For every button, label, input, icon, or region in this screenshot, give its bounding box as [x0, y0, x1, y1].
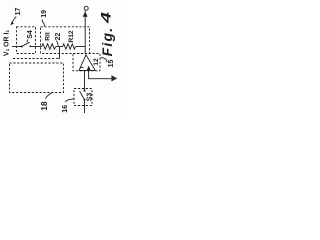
leader for label S4 [27, 40, 28, 43]
leader for label 15 [100, 58, 107, 63]
switch S3 bottom contact dot [84, 99, 86, 101]
supply vertical wire [84, 10, 86, 53]
leader for label 19 [42, 20, 44, 27]
wire R12 to supply node [76, 46, 85, 48]
leader for label 17 [12, 17, 16, 24]
svg-text:R12: R12 [68, 30, 75, 42]
svg-text:15: 15 [108, 60, 115, 68]
leader for label 22 [57, 41, 59, 46]
wire R11 to junction to R12 [56, 46, 63, 48]
box 19 (dashed enclosure around R11/R12) [41, 27, 90, 54]
svg-text:RII: RII [45, 32, 52, 41]
svg-text:S3: S3 [87, 93, 94, 102]
switch S4 contact dot left [21, 46, 23, 48]
wire S4 to R11 [30, 46, 42, 48]
svg-text:Fig.: Fig. [99, 27, 115, 57]
output arrowhead [111, 75, 117, 81]
arrowhead for label 17 [10, 21, 14, 25]
svg-text:12: 12 [93, 58, 100, 66]
svg-text:4: 4 [98, 12, 114, 25]
switch S3 arm [80, 91, 85, 99]
box 17 (dashed enclosure around switch S4) [17, 27, 36, 54]
box 16 (dashed enclosure around switch S3) [74, 89, 92, 106]
wire amp base down to S3 [84, 71, 86, 91]
svg-text:16: 16 [62, 105, 69, 113]
resistor R11 zigzag [42, 44, 56, 49]
dashed tap line to box 18 [13, 58, 56, 60]
svg-text:17: 17 [15, 8, 22, 16]
svg-text:S4: S4 [27, 30, 34, 39]
resistor R12 zigzag [63, 44, 76, 49]
arrowhead inside amplifier [87, 66, 91, 71]
svg-text:22: 22 [55, 33, 62, 41]
wire S3 to bottom [84, 101, 86, 113]
op-amp / amplifier 12 triangle [79, 55, 95, 71]
switch S4 contact dot right [29, 45, 31, 47]
supply arrowhead up [83, 12, 88, 17]
switch S3 top contact dot [84, 90, 86, 92]
leader for label 16 [66, 99, 74, 103]
wire from R11/R12 junction down to tap line [56, 47, 60, 59]
leader for label 18 [46, 93, 52, 99]
switch S4 arm [22, 42, 30, 46]
output wire from amp [89, 71, 112, 79]
svg-text:V1 OR I1: V1 OR I1 [3, 29, 10, 56]
svg-text:18: 18 [40, 101, 49, 111]
svg-text:19: 19 [41, 10, 48, 18]
box 18 (dashed enclosure lower-left) [10, 63, 64, 93]
wire input from V1/I1 terminal [12, 46, 21, 48]
background [0, 0, 122, 120]
tick inside amplifier [80, 67, 83, 69]
box 15 (dashed enclosure around amplifier) [73, 54, 100, 71]
supply terminal circle [84, 6, 88, 10]
